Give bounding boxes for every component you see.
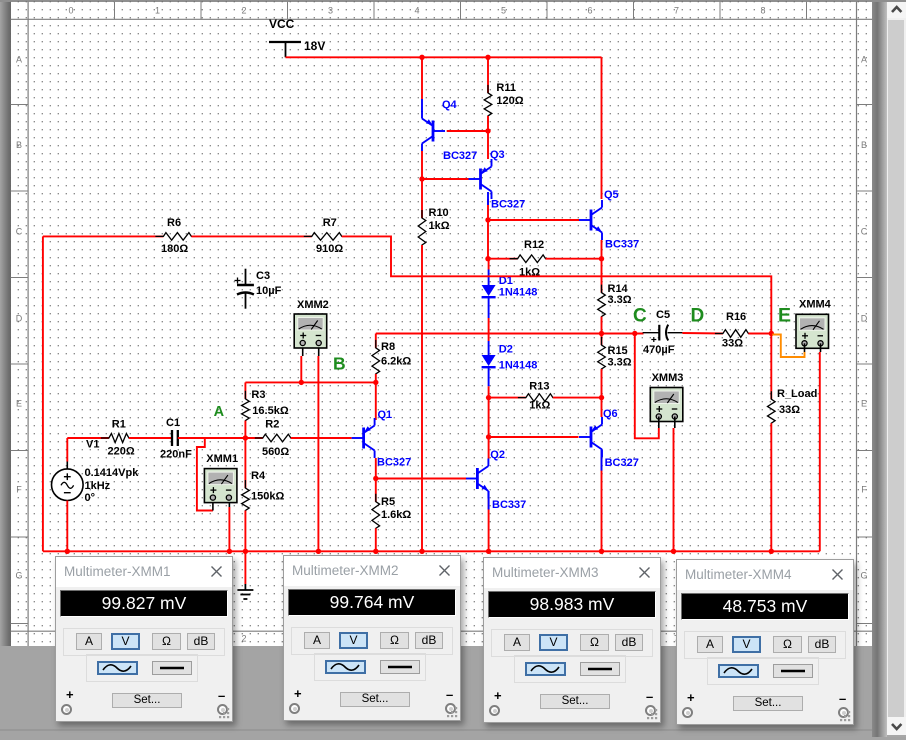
- junction Q3 collector / Q5 base: [485, 217, 490, 222]
- capacitor C5 470uF: [643, 309, 683, 356]
- left shadow gradient: [0, 2, 11, 647]
- wire Q2 emitter to rail: [488, 499, 490, 552]
- junction node E: [769, 331, 774, 336]
- svg-text:D2: D2: [499, 344, 513, 356]
- svg-text:18V: 18V: [304, 39, 325, 53]
- svg-text:R7: R7: [323, 217, 337, 229]
- diode D2 1N4148: [482, 344, 538, 372]
- svg-text:5: 5: [501, 6, 506, 16]
- svg-text:B: B: [861, 140, 867, 150]
- svg-text:1.6kΩ: 1.6kΩ: [381, 509, 411, 521]
- wire Q5 base: [488, 219, 579, 221]
- svg-text:E: E: [16, 399, 22, 409]
- svg-text:Q6: Q6: [603, 408, 618, 420]
- junction D2 / R13 left: [486, 395, 491, 400]
- svg-text:33Ω: 33Ω: [779, 404, 800, 416]
- svg-text:E: E: [861, 399, 867, 409]
- wire R13 left: [489, 397, 526, 399]
- resistor R13 1k: [518, 381, 561, 412]
- wire Q6 base: [489, 436, 579, 438]
- svg-text:R12: R12: [524, 239, 544, 251]
- multimeter icon XMM1: [204, 453, 238, 503]
- svg-text:1N4148: 1N4148: [499, 287, 538, 299]
- wire R8 bottom to node B: [375, 374, 377, 383]
- svg-text:E: E: [778, 305, 791, 327]
- ac source V1: [52, 439, 140, 505]
- wire R16 to node E: [748, 333, 771, 335]
- wire VCC top rail: [286, 56, 602, 58]
- resistor R7 910: [304, 217, 350, 255]
- junction rail/Q6 collector: [599, 549, 604, 554]
- svg-text:C3: C3: [256, 270, 270, 282]
- svg-text:1kΩ: 1kΩ: [429, 220, 450, 232]
- wire Q1 collector down: [375, 458, 377, 479]
- wire R2: [245, 437, 262, 439]
- wire input row: [67, 437, 109, 439]
- svg-text:7: 7: [674, 6, 679, 16]
- svg-text:C: C: [633, 305, 647, 326]
- junction rail/R Load: [769, 549, 774, 554]
- svg-text:560Ω: 560Ω: [262, 446, 289, 458]
- svg-text:BC337: BC337: [605, 239, 639, 251]
- svg-text:R3: R3: [251, 389, 265, 401]
- wire R5 to rail: [375, 528, 377, 551]
- wire XMM1 minus to rail: [228, 502, 230, 551]
- svg-text:D: D: [16, 314, 23, 324]
- svg-text:Q3: Q3: [490, 149, 505, 161]
- wire R1 to C1: [129, 437, 172, 439]
- svg-text:BC327: BC327: [443, 150, 477, 162]
- transistor Q4 BC327: [422, 99, 477, 162]
- wire Q4 base: [447, 130, 488, 132]
- wire rail to R11: [487, 57, 489, 93]
- wire left feedback vertical: [42, 236, 44, 551]
- wire R14 bottom: [601, 317, 603, 334]
- wire C5 to R16: [682, 332, 723, 335]
- svg-text:0.1414Vpk: 0.1414Vpk: [85, 467, 140, 479]
- svg-text:B: B: [16, 140, 22, 150]
- svg-text:R15: R15: [608, 345, 628, 357]
- svg-text:220nF: 220nF: [160, 449, 192, 461]
- junction rail/XMM2 minus: [316, 549, 321, 554]
- svg-text:C: C: [861, 227, 868, 237]
- wire D2 node down to Q2 collector node: [488, 398, 490, 437]
- junction rail/Q2 emitter: [486, 549, 491, 554]
- multimeter icon XMM2: [294, 299, 329, 348]
- svg-text:1: 1: [155, 6, 160, 16]
- svg-text:R_Load: R_Load: [777, 388, 817, 400]
- svg-text:8: 8: [760, 6, 765, 16]
- wire R10 bottom to ground rail: [421, 245, 423, 551]
- resistor R8 6.2k: [372, 334, 411, 382]
- wire XMM3 minus to rail: [674, 417, 675, 552]
- wire XMM2 minus to rail: [317, 348, 319, 551]
- svg-text:B: B: [333, 354, 346, 374]
- svg-text:4: 4: [414, 6, 419, 16]
- VCC power symbol: [269, 17, 325, 57]
- svg-text:D: D: [861, 314, 868, 324]
- svg-text:6: 6: [587, 6, 592, 16]
- junction rail/R10: [419, 549, 424, 554]
- junction rail/Q4: [419, 55, 424, 60]
- wire D2 cathode down: [488, 368, 490, 398]
- wire D1 cathode to D2 anode: [488, 298, 490, 355]
- svg-text:R8: R8: [381, 341, 395, 353]
- wire R12 right: [546, 258, 602, 260]
- vertical scrollbar: [887, 2, 906, 738]
- transistor Q3 collector lead: [487, 192, 489, 205]
- svg-text:F: F: [16, 485, 22, 495]
- svg-text:Q1: Q1: [378, 409, 393, 421]
- ground: [237, 584, 253, 599]
- diode D1 1N4148: [482, 270, 538, 299]
- svg-text:F: F: [861, 485, 867, 495]
- svg-text:6.2kΩ: 6.2kΩ: [381, 356, 411, 368]
- junction rail/R11: [485, 55, 490, 60]
- junction node B: [373, 380, 378, 385]
- multimeter icon XMM3: [650, 372, 683, 422]
- svg-text:R10: R10: [429, 207, 449, 219]
- resistor R_Load 33: [768, 334, 818, 432]
- wire C1 to input node: [178, 437, 246, 439]
- wire Q3 collector down: [487, 199, 490, 270]
- junction rail/R5: [373, 549, 378, 554]
- svg-text:C: C: [16, 227, 23, 237]
- wire Q5 emitter down: [601, 240, 603, 293]
- svg-text:1kHz: 1kHz: [85, 480, 111, 492]
- resistor R15 3.3: [598, 334, 632, 378]
- svg-text:180Ω: 180Ω: [161, 243, 188, 255]
- wire Q6 emitter up: [601, 398, 603, 417]
- svg-text:D: D: [691, 305, 705, 326]
- svg-text:220Ω: 220Ω: [108, 446, 135, 458]
- transistor Q6 collector lead: [601, 450, 603, 471]
- svg-text:VCC: VCC: [269, 17, 295, 31]
- wire V1 bottom to rail: [66, 501, 68, 552]
- junction Q4 collector / Q3 base / R10: [419, 176, 424, 181]
- transistor Q5 BC337: [579, 189, 639, 251]
- svg-text:2: 2: [241, 634, 246, 644]
- svg-text:R13: R13: [529, 381, 549, 393]
- resistor R3 16.5k: [242, 382, 289, 428]
- junction XMM3 plus tap: [632, 331, 637, 336]
- svg-text:3.3Ω: 3.3Ω: [608, 294, 632, 306]
- instrument window Multimeter-XMM3: [483, 557, 661, 723]
- svg-text:R1: R1: [112, 419, 126, 431]
- transistor Q3 BC327: [469, 149, 526, 211]
- svg-text:2: 2: [241, 6, 246, 16]
- wire Q4 collector down: [421, 151, 423, 179]
- junction R4/rail: [243, 549, 248, 554]
- svg-text:V1: V1: [86, 439, 99, 451]
- right shadow gradient: [872, 2, 886, 738]
- multimeter icon XMM4: [796, 299, 832, 349]
- resistor R6 180: [155, 217, 199, 255]
- junction rail/XMM3 minus: [671, 549, 676, 554]
- node C / output row wire: [376, 333, 644, 335]
- instrument window Multimeter-XMM4: [676, 559, 854, 725]
- svg-text:Q2: Q2: [490, 449, 505, 461]
- wire R11 to base node: [487, 116, 489, 131]
- svg-text:470µF: 470µF: [643, 344, 675, 356]
- junction Q1 collector / R5 / Q2 base: [373, 476, 378, 481]
- junction Q2 collector / Q6 base: [486, 434, 491, 439]
- svg-text:Q5: Q5: [604, 189, 619, 201]
- svg-text:C1: C1: [166, 417, 180, 429]
- resistor R12 1k: [510, 239, 554, 278]
- svg-text:XMM2: XMM2: [297, 299, 329, 311]
- svg-text:BC327: BC327: [605, 457, 639, 469]
- svg-text:3: 3: [328, 6, 333, 16]
- svg-text:0: 0: [68, 6, 73, 16]
- wire rail to Q5 collector: [601, 57, 603, 199]
- svg-text:R2: R2: [265, 419, 279, 431]
- resistor R4 150k: [242, 438, 285, 519]
- svg-text:R6: R6: [167, 217, 181, 229]
- wire R6 to R7: [191, 235, 311, 237]
- svg-text:R5: R5: [381, 496, 395, 508]
- svg-text:BC337: BC337: [492, 499, 526, 511]
- wire XMM4 minus to rail: [819, 343, 822, 551]
- wire V1 top: [66, 438, 68, 469]
- svg-text:1kΩ: 1kΩ: [529, 400, 550, 412]
- transistor Q2 BC337: [465, 449, 526, 511]
- svg-text:120Ω: 120Ω: [496, 95, 523, 107]
- node C label: [633, 305, 647, 326]
- svg-text:XMM3: XMM3: [652, 372, 684, 384]
- svg-text:XMM4: XMM4: [799, 299, 832, 311]
- transistor Q6 BC327: [579, 408, 639, 469]
- wire R15 bottom: [601, 369, 603, 398]
- wire Q2 collector up: [488, 437, 490, 459]
- svg-text:10µF: 10µF: [256, 285, 282, 297]
- node A label: [214, 404, 225, 420]
- svg-text:R16: R16: [726, 311, 746, 323]
- capacitor C3 10uF: [235, 269, 282, 309]
- svg-text:3.3Ω: 3.3Ω: [608, 357, 632, 369]
- junction V1/rail: [65, 549, 70, 554]
- wire Q2 base from Q1: [376, 478, 466, 480]
- wire R3 to input node: [244, 421, 246, 438]
- resistor R10 1k: [418, 179, 450, 253]
- svg-text:XMM1: XMM1: [206, 453, 238, 465]
- wire Q6 collector to rail: [601, 457, 603, 551]
- resistor R14 3.3: [598, 283, 632, 325]
- resistor R16 33: [715, 311, 757, 350]
- transistor Q1 BC327: [352, 409, 412, 469]
- svg-text:16.5kΩ: 16.5kΩ: [252, 405, 289, 417]
- wire node B row: [245, 381, 375, 383]
- svg-text:C5: C5: [656, 309, 670, 321]
- svg-text:33Ω: 33Ω: [722, 338, 743, 350]
- wire rail to ground: [244, 551, 246, 584]
- svg-text:R11: R11: [496, 82, 516, 94]
- capacitor C1 220nF: [160, 417, 192, 461]
- resistor R11: [484, 82, 524, 124]
- junction input node R3/R2/R4: [243, 435, 248, 440]
- resistor R1 220: [101, 419, 137, 458]
- wire R_Load to rail: [770, 423, 772, 551]
- junction R12 right / Q5 emitter / R14: [599, 256, 604, 261]
- wire node B down to Q1 emitter: [375, 382, 377, 420]
- wire R2 to Q1 base: [291, 437, 352, 439]
- svg-text:1N4148: 1N4148: [499, 360, 538, 372]
- wire XMM4 plus orange to node E: [772, 335, 804, 358]
- instrument window Multimeter-XMM1: [55, 556, 233, 722]
- node E label: [778, 305, 791, 327]
- wire R13 right: [553, 397, 602, 399]
- svg-text:910Ω: 910Ω: [316, 243, 343, 255]
- svg-text:R4: R4: [251, 470, 266, 482]
- node D label: [691, 305, 705, 326]
- wire R7 to node E (feedback): [342, 236, 772, 333]
- junction XMM2 plus tap: [299, 380, 304, 385]
- svg-text:G: G: [860, 571, 867, 581]
- svg-text:A: A: [214, 404, 225, 420]
- svg-text:BC327: BC327: [491, 199, 525, 211]
- svg-text:Q4: Q4: [442, 99, 458, 111]
- svg-text:BC327: BC327: [377, 457, 411, 469]
- junction R15 / R13 / Q6 emitter: [599, 395, 604, 400]
- junction R14/R15 node C: [599, 331, 604, 336]
- junction D1 / R12 left: [485, 256, 490, 261]
- junction rail/XMM1 minus: [227, 549, 232, 554]
- junction R11/Q4 base/Q3 emitter: [485, 128, 490, 133]
- resistor R5 1.6k: [372, 479, 411, 537]
- top window edge: [0, 0, 906, 2]
- svg-text:A: A: [16, 55, 22, 65]
- wire R4 to rail: [244, 511, 246, 552]
- wire Q3 base: [422, 178, 469, 180]
- instrument window Multimeter-XMM2: [283, 555, 461, 721]
- svg-text:A: A: [861, 55, 867, 65]
- node B label: [333, 354, 346, 374]
- wire XMM3 plus to node C: [635, 334, 659, 439]
- resistor R2 560: [255, 419, 299, 459]
- transistor Q2 emitter lead: [488, 491, 490, 510]
- svg-text:0°: 0°: [85, 492, 96, 504]
- svg-text:G: G: [15, 571, 22, 581]
- wire C1 tap to XMM1 plus: [197, 438, 213, 511]
- wire feedback top row: [43, 235, 163, 237]
- wire ground rail bottom: [43, 550, 820, 552]
- svg-text:150kΩ: 150kΩ: [251, 491, 284, 503]
- wire R12 left: [488, 258, 518, 260]
- wire XMM2 plus to node B: [301, 348, 302, 382]
- wire rail to Q4 emitter: [421, 57, 423, 112]
- wire node to Q3 emitter: [487, 131, 489, 159]
